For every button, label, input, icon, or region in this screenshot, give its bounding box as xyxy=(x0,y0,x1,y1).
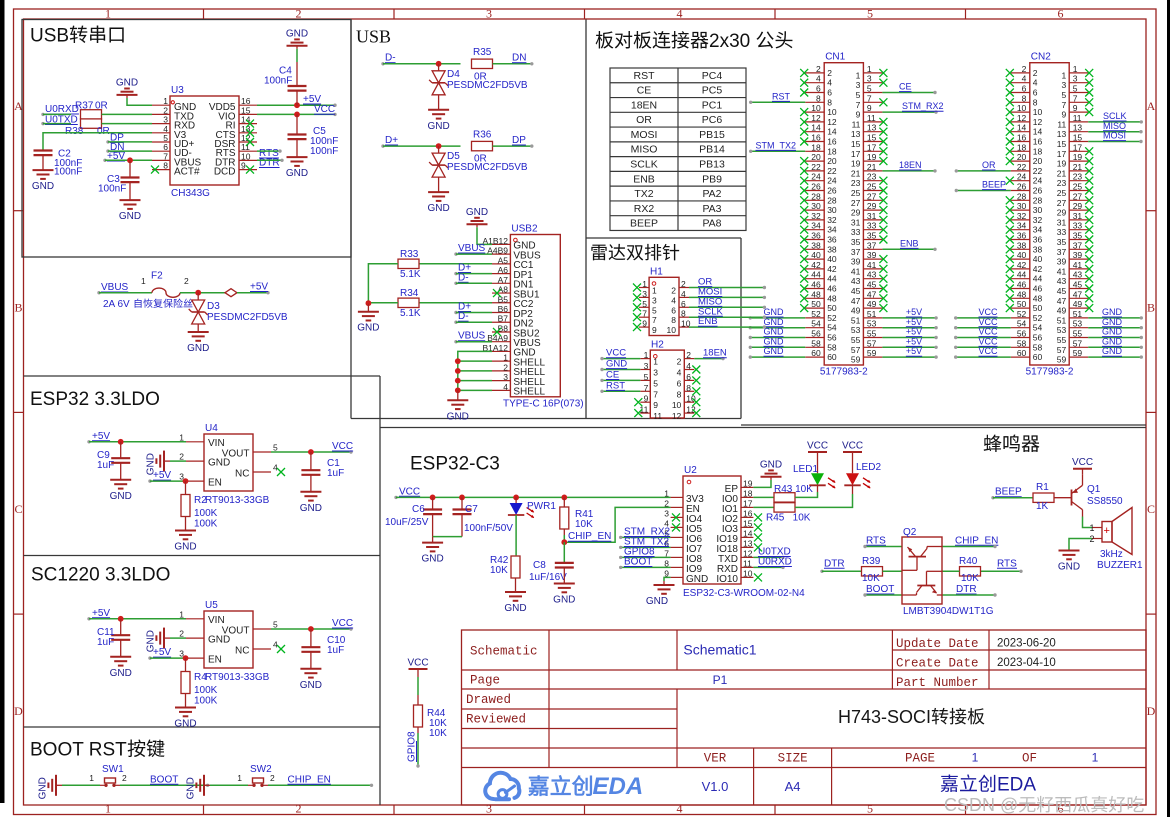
svg-text:58: 58 xyxy=(1033,342,1043,352)
wire DN2 xyxy=(456,321,492,323)
svg-text:40: 40 xyxy=(1033,254,1043,264)
wire CN1 pin54 GND xyxy=(749,317,806,330)
svg-text:31: 31 xyxy=(1057,217,1067,227)
svg-text:25: 25 xyxy=(1057,188,1067,198)
svg-text:7: 7 xyxy=(653,389,658,399)
svg-text:1uF: 1uF xyxy=(97,637,114,648)
wire F2 to +5V port xyxy=(180,290,225,296)
svg-text:18EN: 18EN xyxy=(703,348,727,359)
svg-text:33: 33 xyxy=(867,221,877,231)
svg-text:19: 19 xyxy=(851,159,861,169)
svg-text:4: 4 xyxy=(686,361,691,371)
svg-text:PC5: PC5 xyxy=(702,85,723,97)
ground GND C9 xyxy=(110,463,132,502)
wire DN xyxy=(493,53,534,66)
wire buzzer GND xyxy=(1069,539,1092,551)
wire B1A12 GND and SHELL xyxy=(455,351,492,393)
svg-text:ENB: ENB xyxy=(698,316,718,327)
svg-text:SW1: SW1 xyxy=(102,764,124,775)
wire CN2 pin26 BEEP xyxy=(955,180,1011,193)
watermark CSDN xyxy=(944,795,1144,815)
net label D+ DP2 xyxy=(454,302,471,315)
svg-text:Update Date: Update Date xyxy=(896,637,979,651)
svg-text:Drawed: Drawed xyxy=(466,693,511,707)
svg-text:CSDN @: CSDN @ xyxy=(944,795,1018,815)
svg-text:8: 8 xyxy=(163,161,168,171)
svg-text:7: 7 xyxy=(652,315,657,325)
svg-text:54: 54 xyxy=(811,319,821,329)
svg-text:RTS: RTS xyxy=(866,535,886,546)
svg-text:2: 2 xyxy=(179,629,184,639)
led LED1 green xyxy=(793,464,836,488)
svg-text:15: 15 xyxy=(743,518,753,528)
header H2 xyxy=(639,339,696,421)
svg-text:16: 16 xyxy=(1017,133,1027,143)
svg-text:USB2: USB2 xyxy=(511,224,538,235)
svg-text:43: 43 xyxy=(1073,270,1083,280)
svg-text:12: 12 xyxy=(743,548,753,558)
svg-text:Reviewed: Reviewed xyxy=(466,713,526,727)
svg-text:38: 38 xyxy=(827,244,837,254)
svg-text:2A 6V: 2A 6V xyxy=(103,299,132,310)
svg-text:GND: GND xyxy=(286,28,308,39)
svg-text:12: 12 xyxy=(811,113,821,123)
svg-text:1: 1 xyxy=(653,357,658,367)
svg-text:44: 44 xyxy=(1033,274,1043,284)
svg-text:R40: R40 xyxy=(959,556,978,567)
net label BEEP Q1 xyxy=(991,487,1022,500)
svg-text:28: 28 xyxy=(1033,195,1043,205)
wire H2 pin7 RST xyxy=(600,380,640,393)
svg-text:4: 4 xyxy=(503,382,508,392)
svg-text:10K: 10K xyxy=(862,573,880,584)
svg-text:26: 26 xyxy=(1033,186,1043,196)
svg-text:SC1220 3.3LDO: SC1220 3.3LDO xyxy=(31,565,170,586)
svg-text:RST: RST xyxy=(772,91,791,101)
svg-text:17: 17 xyxy=(1057,149,1067,159)
wire U2 STM_TX2 xyxy=(619,537,671,550)
svg-text:PB9: PB9 xyxy=(702,173,722,185)
svg-text:13: 13 xyxy=(1073,123,1083,133)
wire CN1 pin53 +5V xyxy=(882,317,937,330)
svg-text:H2: H2 xyxy=(651,339,664,350)
wire DTR U3 xyxy=(257,159,284,162)
svg-text:1uF: 1uF xyxy=(327,645,344,656)
svg-text:RTS: RTS xyxy=(997,558,1017,569)
wire CN2 pin60 VCC xyxy=(954,346,1011,359)
net label +5V U5 EN xyxy=(148,647,171,660)
svg-text:3: 3 xyxy=(664,508,669,518)
wire CN1 pin37 ENB xyxy=(882,238,936,251)
svg-text:GND: GND xyxy=(1102,346,1123,356)
svg-text:51: 51 xyxy=(851,315,861,325)
svg-text:R34: R34 xyxy=(400,288,419,299)
svg-text:37: 37 xyxy=(1073,240,1083,250)
svg-text:PESDMC2FD5VB: PESDMC2FD5VB xyxy=(207,312,288,323)
svg-text:5: 5 xyxy=(273,443,278,453)
svg-text:12: 12 xyxy=(1033,117,1043,127)
svg-text:13: 13 xyxy=(851,129,861,139)
svg-text:100K: 100K xyxy=(194,696,218,707)
svg-text:CN2: CN2 xyxy=(1031,52,1051,63)
text fuse note xyxy=(103,299,192,310)
svg-text:40: 40 xyxy=(1017,250,1027,260)
regulator U4 RT9013-33GB xyxy=(179,423,278,491)
net label DN xyxy=(106,142,124,153)
wire D+ xyxy=(383,143,461,149)
svg-text:9: 9 xyxy=(867,103,872,113)
svg-text:34: 34 xyxy=(811,221,821,231)
capacitor C3 100nF xyxy=(98,160,140,194)
svg-text:6: 6 xyxy=(1033,88,1038,98)
svg-text:2: 2 xyxy=(184,276,189,286)
svg-text:28: 28 xyxy=(827,195,837,205)
svg-text:9: 9 xyxy=(241,161,246,171)
svg-text:1: 1 xyxy=(856,70,861,80)
svg-text:1: 1 xyxy=(644,350,649,360)
svg-text:9: 9 xyxy=(652,325,657,335)
switch SW2 xyxy=(237,764,275,787)
svg-text:24: 24 xyxy=(827,176,837,186)
svg-text:GND: GND xyxy=(186,777,197,799)
svg-text:BOOT: BOOT xyxy=(866,584,894,595)
svg-text:44: 44 xyxy=(827,274,837,284)
svg-text:10: 10 xyxy=(827,107,837,117)
diode D5 PESDMC2FD5VB xyxy=(429,146,528,177)
svg-text:20: 20 xyxy=(811,152,821,162)
svg-text:STM_RX2: STM_RX2 xyxy=(902,101,944,111)
svg-text:CE: CE xyxy=(606,370,619,381)
svg-text:+5V: +5V xyxy=(906,327,922,337)
wire R41 C8 xyxy=(563,542,565,563)
svg-text:B6: B6 xyxy=(498,304,509,314)
svg-text:U5: U5 xyxy=(205,600,218,611)
capacitor C10 1uF xyxy=(301,629,345,656)
svg-text:47: 47 xyxy=(1057,296,1067,306)
svg-text:48: 48 xyxy=(811,289,821,299)
svg-text:34: 34 xyxy=(1017,221,1027,231)
svg-text:42: 42 xyxy=(1033,264,1043,274)
svg-text:4: 4 xyxy=(677,802,683,816)
svg-text:56: 56 xyxy=(1017,329,1027,339)
svg-text:1: 1 xyxy=(652,286,657,296)
svg-text:59: 59 xyxy=(851,355,861,365)
svg-text:11: 11 xyxy=(1057,119,1066,129)
svg-text:A: A xyxy=(1147,99,1156,113)
svg-text:47: 47 xyxy=(1073,289,1083,299)
svg-text:PA8: PA8 xyxy=(702,218,721,230)
svg-text:VBUS: VBUS xyxy=(458,243,486,254)
svg-text:5177983-2: 5177983-2 xyxy=(820,367,868,378)
svg-text:56: 56 xyxy=(1033,333,1043,343)
svg-text:47: 47 xyxy=(867,289,877,299)
svg-text:2x30: 2x30 xyxy=(709,31,755,52)
svg-text:USB: USB xyxy=(30,26,69,47)
svg-text:17: 17 xyxy=(867,142,877,152)
svg-text:60: 60 xyxy=(1017,348,1027,358)
svg-text:PB14: PB14 xyxy=(699,144,725,156)
net label VBUS B4A9 xyxy=(454,331,485,344)
svg-text:9: 9 xyxy=(642,319,647,329)
svg-text:18EN: 18EN xyxy=(899,160,922,170)
svg-text:12: 12 xyxy=(827,117,837,127)
svg-text:54: 54 xyxy=(827,323,837,333)
svg-text:GND: GND xyxy=(447,411,469,422)
svg-text:30: 30 xyxy=(1033,205,1043,215)
svg-text:58: 58 xyxy=(1017,338,1027,348)
svg-text:C6: C6 xyxy=(412,504,425,515)
svg-text:SCLK: SCLK xyxy=(630,159,657,171)
svg-text:RT9013-33GB: RT9013-33GB xyxy=(205,672,270,683)
wire U2 BOOT xyxy=(619,557,671,570)
svg-text:U4: U4 xyxy=(205,423,218,434)
ground GND D5 xyxy=(427,177,449,214)
svg-text:R39: R39 xyxy=(862,556,881,567)
no-connect marks H2 xyxy=(634,366,700,418)
no-connect NC U4 xyxy=(277,468,285,476)
svg-text:R37: R37 xyxy=(75,101,94,112)
power port +5V diamond xyxy=(225,282,270,297)
svg-text:A5: A5 xyxy=(498,255,509,265)
wire CN2 pin52 VCC xyxy=(954,307,1011,320)
svg-text:10: 10 xyxy=(811,103,821,113)
svg-text:55: 55 xyxy=(1057,335,1067,345)
svg-text:49: 49 xyxy=(851,306,861,316)
svg-text:24: 24 xyxy=(811,172,821,182)
wire U2 IO0 R43 xyxy=(753,496,774,498)
svg-text:49: 49 xyxy=(1073,299,1083,309)
svg-text:GND: GND xyxy=(764,346,785,356)
wire CC1 R33 xyxy=(420,263,493,265)
svg-text:6: 6 xyxy=(686,372,691,382)
wire CN1 pin51 +5V xyxy=(882,307,937,320)
svg-text:RX2: RX2 xyxy=(634,203,655,215)
connector USB2 TYPE-C 16P xyxy=(482,224,583,410)
resistor R34 5.1K xyxy=(398,288,421,319)
svg-text:CE: CE xyxy=(637,85,652,97)
net label VCC ESP32 xyxy=(394,486,420,499)
net label RTS U3 xyxy=(259,148,279,159)
ground GND R4 xyxy=(174,694,196,730)
wire VBUS A4B9 xyxy=(456,253,492,255)
svg-text:2023-04-10: 2023-04-10 xyxy=(997,657,1056,669)
net label VBUS A4B9 xyxy=(454,243,485,256)
svg-text:34: 34 xyxy=(1033,225,1043,235)
svg-text:30: 30 xyxy=(1017,201,1027,211)
svg-text:GND: GND xyxy=(427,203,449,214)
svg-text:VCC: VCC xyxy=(978,307,998,317)
resistor R41 10K xyxy=(560,497,594,530)
svg-text:R43 10K: R43 10K xyxy=(774,484,813,495)
wire R39 Q2 xyxy=(883,570,903,572)
svg-text:1: 1 xyxy=(503,353,508,363)
svg-text:ESP32-C3-WROOM-02-N4: ESP32-C3-WROOM-02-N4 xyxy=(683,588,805,599)
wire D- xyxy=(383,61,461,67)
svg-text:27: 27 xyxy=(1073,191,1083,201)
signal mapping table xyxy=(610,68,746,230)
ground GND R2 xyxy=(174,517,196,553)
svg-text:BEEP: BEEP xyxy=(995,487,1022,498)
svg-text:TYPE-C 16P(073): TYPE-C 16P(073) xyxy=(503,399,584,410)
svg-text:15: 15 xyxy=(1057,139,1067,149)
net label +5V U4 EN xyxy=(148,470,171,483)
svg-text:2: 2 xyxy=(827,68,832,78)
svg-text:2: 2 xyxy=(671,286,676,296)
wire H1 pin2 OR xyxy=(689,277,766,290)
led LED2 red xyxy=(844,462,881,488)
svg-text:2: 2 xyxy=(686,350,691,360)
svg-text:Part Number: Part Number xyxy=(896,676,979,690)
svg-text:+5V: +5V xyxy=(906,317,922,327)
ground GND C4 top xyxy=(286,28,308,86)
wire CN1 pin9 STM_RX2 xyxy=(882,101,943,114)
svg-text:41: 41 xyxy=(851,266,861,276)
wire R44 GPIO8 xyxy=(416,727,419,768)
svg-text:VCC: VCC xyxy=(407,658,428,669)
svg-text:8: 8 xyxy=(686,383,691,393)
svg-text:GND: GND xyxy=(764,336,785,346)
svg-text:ESP32-C3: ESP32-C3 xyxy=(410,454,500,475)
svg-text:53: 53 xyxy=(1057,325,1067,335)
svg-text:7: 7 xyxy=(644,383,649,393)
svg-text:VCC: VCC xyxy=(399,486,420,497)
svg-text:SCLK: SCLK xyxy=(1103,111,1127,121)
svg-text:C: C xyxy=(14,502,22,516)
diode D4 PESDMC2FD5VB xyxy=(429,64,528,95)
svg-text:3: 3 xyxy=(503,372,508,382)
no-connect marks U3 xyxy=(151,120,254,174)
svg-text:6: 6 xyxy=(1022,84,1027,94)
svg-text:46: 46 xyxy=(1033,284,1043,294)
ground GND C10 xyxy=(300,652,322,691)
svg-text:27: 27 xyxy=(867,191,877,201)
svg-text:LED2: LED2 xyxy=(856,462,881,473)
svg-text:42: 42 xyxy=(811,260,821,270)
svg-text:GND: GND xyxy=(286,168,308,179)
svg-text:38: 38 xyxy=(1033,244,1043,254)
net label D- xyxy=(381,53,395,66)
wire R34 GND xyxy=(366,300,399,306)
ground GND U4 pin2 xyxy=(146,451,187,476)
ground GND USB2 shell xyxy=(447,390,469,422)
svg-text:23: 23 xyxy=(851,178,861,188)
svg-text:PC6: PC6 xyxy=(702,114,723,126)
svg-text:DTR: DTR xyxy=(956,584,977,595)
svg-text:39: 39 xyxy=(867,250,877,260)
ground GND R42 xyxy=(504,578,526,614)
svg-text:10: 10 xyxy=(1033,107,1043,117)
net label +5V U4 VIN xyxy=(87,431,110,444)
svg-text:18EN: 18EN xyxy=(631,99,657,111)
wire CN2 pin59 GND xyxy=(1088,346,1143,359)
capacitor C8 1uF/16V xyxy=(529,560,574,583)
net label CHIP_EN Q2 xyxy=(955,535,998,546)
net label U0RXD xyxy=(41,104,79,116)
svg-text:B7: B7 xyxy=(498,314,509,324)
svg-text:BUZZER1: BUZZER1 xyxy=(1097,560,1143,571)
ground GND C6 C7 xyxy=(421,537,443,565)
title block lines xyxy=(462,630,1147,805)
svg-text:6: 6 xyxy=(671,305,676,315)
svg-text:U0RXD: U0RXD xyxy=(45,104,79,115)
svg-text:53: 53 xyxy=(1073,319,1083,329)
wire VDD5 +5V xyxy=(257,102,337,108)
svg-text:31: 31 xyxy=(1073,211,1083,221)
power flag VCC LED2 xyxy=(842,441,863,474)
wire SW1 BOOT xyxy=(120,774,209,787)
resistor R42 10K xyxy=(490,555,520,578)
resistor R33 5.1K xyxy=(398,249,421,280)
svg-text:59: 59 xyxy=(867,348,877,358)
svg-text:27: 27 xyxy=(851,198,861,208)
svg-text:+5V: +5V xyxy=(92,608,110,619)
svg-text:1: 1 xyxy=(664,488,669,498)
svg-text:GND: GND xyxy=(110,668,132,679)
svg-text:4: 4 xyxy=(681,289,686,299)
svg-text:29: 29 xyxy=(1073,201,1083,211)
svg-text:VCC: VCC xyxy=(842,441,863,452)
svg-text:32: 32 xyxy=(827,215,837,225)
switch SW1 xyxy=(89,764,127,787)
svg-text:+5V: +5V xyxy=(906,336,922,346)
svg-text:58: 58 xyxy=(811,338,821,348)
svg-text:29: 29 xyxy=(867,201,877,211)
svg-text:46: 46 xyxy=(811,280,821,290)
regulator U5 RT9013-33GB xyxy=(179,600,278,668)
svg-text:+5V: +5V xyxy=(906,346,922,356)
svg-text:35: 35 xyxy=(867,231,877,241)
svg-text:27: 27 xyxy=(1057,198,1067,208)
svg-text:25: 25 xyxy=(1073,182,1083,192)
svg-text:34: 34 xyxy=(827,225,837,235)
svg-text:GND: GND xyxy=(119,211,141,222)
svg-text:PC1: PC1 xyxy=(702,99,723,111)
svg-text:LMBT3904DW1T1G: LMBT3904DW1T1G xyxy=(903,606,994,617)
ground GND C1 xyxy=(300,475,322,514)
wire +5V U3 pin7 xyxy=(105,157,152,163)
svg-text:21: 21 xyxy=(851,168,861,178)
wire CN1 pin52 GND xyxy=(749,307,806,320)
svg-text:0R: 0R xyxy=(97,126,110,137)
svg-text:21: 21 xyxy=(1073,162,1083,172)
title block labels xyxy=(466,637,1037,766)
svg-text:5: 5 xyxy=(653,378,658,388)
wire CN2 pin51 GND xyxy=(1088,307,1143,320)
svg-text:14: 14 xyxy=(827,127,837,137)
svg-text:MISO: MISO xyxy=(1103,121,1126,131)
svg-text:BOOT: BOOT xyxy=(150,774,178,785)
svg-text:5: 5 xyxy=(273,620,278,630)
svg-text:100K: 100K xyxy=(194,685,218,696)
svg-text:100K: 100K xyxy=(194,508,218,519)
svg-text:C: C xyxy=(1147,502,1155,516)
svg-text:ENB: ENB xyxy=(900,238,919,248)
svg-text:5177983-2: 5177983-2 xyxy=(1026,367,1074,378)
svg-text:VCC: VCC xyxy=(1072,457,1093,468)
svg-text:10uF/25V: 10uF/25V xyxy=(385,517,429,528)
svg-text:VBUS: VBUS xyxy=(101,282,129,293)
svg-text:26: 26 xyxy=(1017,182,1027,192)
wire DP1 xyxy=(456,273,492,275)
svg-text:53: 53 xyxy=(867,319,877,329)
capacitor C9 1uF xyxy=(97,442,130,471)
svg-text:45: 45 xyxy=(1073,280,1083,290)
resistor R38 0R xyxy=(65,119,152,137)
svg-text:3: 3 xyxy=(1061,80,1066,90)
svg-text:29: 29 xyxy=(1057,208,1067,218)
wire U2 GPIO8 xyxy=(619,547,671,560)
svg-text:4: 4 xyxy=(677,7,683,21)
